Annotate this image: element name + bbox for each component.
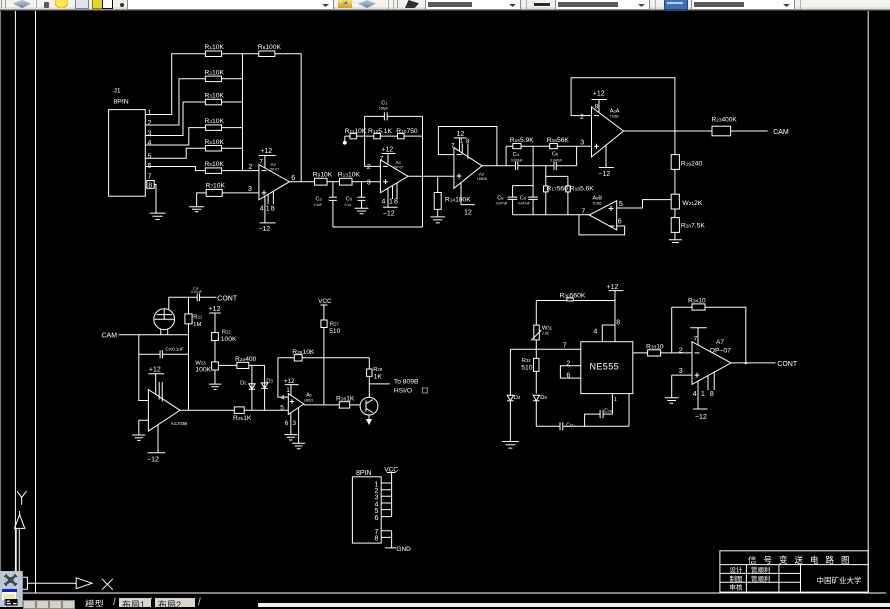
wire A7 plus input to ground (672, 375, 692, 398)
resistor R30 body (567, 298, 573, 301)
wire CAM input (119, 334, 189, 336)
svg-text:100pF: 100pF (379, 107, 388, 111)
wire A2 output (289, 181, 314, 183)
svg-text:1: 1 (701, 391, 705, 398)
resistor R10 body (398, 133, 405, 138)
UCS icon Y arrowhead (15, 511, 25, 528)
svg-text:CONT: CONT (777, 361, 798, 368)
svg-text:−12: −12 (598, 171, 610, 178)
wire R2 to bus (222, 78, 243, 80)
svg-text:4: 4 (693, 391, 697, 398)
resistor R9 body (315, 178, 328, 185)
ground below A1 plus input (132, 435, 145, 440)
svg-text:+12: +12 (593, 90, 605, 97)
toolbar end separator (800, 0, 801, 9)
svg-text:+12: +12 (381, 146, 393, 153)
wire stub to HSI/O (369, 383, 390, 385)
wire NE555 discharge pin (628, 394, 630, 427)
svg-text:6: 6 (375, 515, 379, 522)
svg-text:1: 1 (286, 387, 290, 394)
wire R13 to opamp A4 plus input (352, 181, 380, 183)
svg-text:GND: GND (396, 546, 411, 553)
resistor R23 body (712, 126, 731, 136)
svg-text:C4: C4 (513, 152, 520, 158)
wire R24 to diode node (249, 364, 265, 366)
wire bottom row with C11 (536, 425, 629, 427)
capacitor C20 wire (139, 353, 189, 355)
svg-text:+12: +12 (149, 366, 161, 373)
wire R6 to opamp A2 inverting input (222, 170, 259, 172)
wire A6A output (624, 130, 713, 132)
UCS icon X axis line (27, 582, 76, 584)
svg-text:R24400: R24400 (235, 356, 257, 363)
svg-text:−12: −12 (383, 210, 395, 217)
svg-text:R22: R22 (222, 329, 232, 335)
power +12 tee of A7 (690, 328, 707, 345)
wire pins 2 and 6 jog (560, 366, 580, 378)
op-amp A5 triangle (288, 394, 304, 415)
resistor R32 vertical with leads (535, 349, 537, 393)
svg-text:7: 7 (581, 209, 585, 216)
capacitor C1 plates (384, 112, 387, 120)
ground below J1 (150, 213, 166, 219)
branch wire to C8 (513, 185, 534, 187)
svg-text:4: 4 (148, 140, 152, 147)
drawing frame left inner border (35, 11, 37, 593)
svg-text:2: 2 (580, 114, 584, 121)
toolbar layer-previous icon (358, 0, 376, 8)
svg-text:R32: R32 (522, 358, 532, 364)
wire A6B pin6 feedback loop (579, 215, 625, 235)
svg-text:审核: 审核 (730, 583, 744, 592)
wire tube top to coupling cap (169, 297, 197, 309)
power -12 tee of A7 (693, 381, 708, 409)
svg-text:100K: 100K (195, 366, 211, 373)
diode D2 vertical wire (251, 365, 253, 410)
ground below R20 (669, 240, 682, 243)
op-amp A4 pin1 pin8 stubs (393, 183, 398, 199)
op-amp A6B mirrored triangle (589, 201, 617, 230)
connector J1 body (109, 110, 146, 197)
wire R20 to ground (674, 232, 676, 239)
svg-text:2: 2 (249, 164, 253, 171)
wire A7 output to CONT (731, 362, 776, 364)
wire J1 pin2 to R2 (145, 79, 205, 125)
resistor R34 body (692, 304, 705, 310)
wire NE555 pin5 with C10 (585, 394, 613, 427)
wire J1 pin4 to R4 (145, 128, 205, 145)
svg-text:6: 6 (285, 420, 289, 427)
svg-text:R1310K: R1310K (338, 171, 361, 178)
svg-text:8: 8 (616, 320, 620, 327)
resistor R24 body (237, 362, 249, 368)
wire R22 to W23 (214, 341, 216, 362)
resistor R21 vertical with leads (188, 297, 190, 410)
resistor R8 feedback body (259, 51, 275, 57)
svg-text:8PIN: 8PIN (114, 99, 129, 106)
svg-text:5: 5 (619, 201, 623, 208)
op-amp A2 plus mark (262, 190, 267, 195)
svg-text:7: 7 (148, 174, 152, 181)
svg-text:3: 3 (248, 186, 252, 193)
wire node down to C5 (361, 182, 363, 198)
UCS icon origin box (21, 577, 27, 589)
svg-text:设计: 设计 (730, 565, 744, 574)
svg-text:2.2K: 2.2K (542, 331, 550, 335)
resistor R4 body (205, 125, 221, 130)
wire J1 pin3 to R3 (145, 102, 205, 136)
vertical link right of T network to pin3 (577, 146, 592, 166)
capacitor C10 plates (600, 410, 603, 418)
op-amp A2 pin1 pin8 stubs (268, 191, 273, 204)
svg-text:5: 5 (148, 153, 152, 160)
svg-text:D2: D2 (240, 381, 247, 387)
toolbar linetype dropdown (555, 0, 650, 10)
op-amp A6A plus mark (594, 144, 599, 149)
toolbar layers icon (13, 0, 31, 8)
svg-text:R207.5K: R207.5K (681, 222, 705, 229)
layout1 tab (119, 598, 151, 607)
power -12 tee of A6A (599, 146, 614, 168)
svg-text:HSI/O: HSI/O (394, 388, 412, 395)
power -12 tee of A4 (383, 188, 398, 207)
svg-text:0.047uF: 0.047uF (518, 202, 530, 206)
wire J2 GND bus (385, 531, 396, 548)
resistor R17 vertical with leads (546, 166, 568, 215)
capacitor C19 plates (197, 294, 199, 302)
diode D4 symbol (507, 395, 513, 401)
power -12 tee of A2 (260, 196, 276, 223)
transistor K internals (366, 400, 373, 413)
title block row line 1 (720, 564, 868, 566)
svg-text:R1656K: R1656K (547, 137, 570, 144)
resistor R25 body (234, 407, 244, 414)
UCS icon Y label (17, 491, 27, 505)
wire A5 output (304, 404, 340, 406)
svg-text:C10: C10 (604, 408, 612, 414)
resistor R22 body vertical (212, 333, 219, 341)
svg-text:12: 12 (457, 131, 465, 138)
feedback bottom wire of A4 (333, 226, 423, 228)
node stub dot at left of resistor chain (344, 136, 346, 141)
svg-text:3: 3 (580, 140, 584, 147)
svg-text:R610K: R610K (205, 161, 225, 168)
wire A1 output (180, 409, 234, 411)
op-amp A6A minus mark (594, 115, 599, 117)
svg-text:R3410: R3410 (688, 298, 706, 305)
resistor R28 body on feedback wire (278, 357, 369, 359)
svg-text:510: 510 (521, 365, 532, 372)
resistor R5 body (205, 146, 221, 152)
wire J1 pin1 to R1 (145, 54, 205, 115)
svg-text:2: 2 (679, 348, 683, 355)
op-amp A3 minus mark (457, 154, 462, 156)
window left edge line (0, 11, 1, 596)
svg-text:3: 3 (148, 131, 152, 138)
svg-text:8: 8 (466, 139, 470, 145)
op-amp A7 minus mark (695, 352, 700, 354)
svg-text:R3310: R3310 (646, 344, 664, 351)
resistor R29 vertical with leads (368, 358, 370, 398)
svg-text:4: 4 (260, 206, 264, 213)
toolbar grip (1, 0, 2, 8)
junction dot at A7 output (745, 362, 748, 365)
svg-text:7: 7 (259, 159, 263, 166)
svg-text:7: 7 (380, 156, 384, 163)
svg-text:8: 8 (595, 104, 599, 111)
svg-text:R185.6K: R185.6K (570, 185, 594, 192)
svg-text:C200.1uF: C200.1uF (165, 347, 183, 352)
wire C19 to CONT terminal (200, 296, 217, 298)
drawing frame bottom border (15, 592, 886, 594)
svg-text:6: 6 (291, 175, 295, 182)
wire R7 to opamp A2 non-inverting input (222, 192, 259, 194)
wire plus input to ground (139, 420, 149, 435)
wire C5 to ground (361, 200, 363, 208)
svg-text:2: 2 (567, 360, 571, 367)
ground below D4 (502, 442, 519, 449)
layout tab nav buttons (23, 600, 36, 609)
UCS icon X arrowhead (76, 578, 92, 589)
potentiometer W21 body vertical (671, 194, 679, 209)
svg-text:7: 7 (694, 336, 698, 343)
svg-text:+12: +12 (284, 378, 295, 385)
title block column line 2 (778, 565, 780, 593)
feedback right wire of A4 (422, 116, 424, 227)
wire NE555 output row (633, 352, 692, 354)
svg-text:2: 2 (148, 120, 152, 127)
resistor R20 body vertical (671, 218, 679, 233)
toolbar separator (655, 0, 656, 9)
ground below W23 (209, 384, 221, 389)
svg-text:−12: −12 (147, 457, 159, 464)
wire CAM node down to minus input (139, 335, 149, 401)
wire D5 to bottom row (535, 401, 537, 427)
timer NE555 body (581, 342, 633, 394)
svg-text:1M: 1M (193, 322, 201, 328)
potentiometer W23 body vertical (212, 362, 219, 370)
wire bus through R8 to output node (243, 54, 302, 182)
toolbar pencil icon bottom (44, 2, 49, 8)
op-amp A7 triangle (692, 342, 731, 385)
svg-text:A7: A7 (716, 339, 724, 346)
svg-text:R251K: R251K (233, 415, 252, 422)
svg-text:TL082: TL082 (593, 201, 602, 205)
svg-text:R155.9K: R155.9K (510, 137, 534, 144)
wire A5 pin4 feedback (278, 358, 288, 397)
resistor R26 body (339, 402, 349, 408)
svg-text:R30560K: R30560K (560, 292, 586, 299)
capacitor C6 plates (554, 162, 556, 170)
svg-text:A5: A5 (306, 392, 311, 398)
tab slash separator (113, 597, 121, 607)
svg-text:J1: J1 (114, 88, 121, 95)
svg-text:4: 4 (594, 329, 598, 336)
op-amp A1 triangle (148, 390, 180, 432)
svg-text:0.01uF: 0.01uF (191, 290, 202, 294)
wire W23 to ground (214, 370, 216, 384)
resistor R13 body (340, 178, 353, 185)
svg-text:LM308: LM308 (477, 177, 487, 181)
capacitor C3 plates (329, 197, 337, 200)
svg-text:R261K: R261K (336, 395, 355, 402)
wire A3 output lower path (482, 165, 577, 167)
upper path wire with R15 R16 (506, 145, 576, 147)
svg-text:R125.1K: R125.1K (368, 128, 392, 135)
capacitor C20 plates (160, 350, 162, 358)
svg-text:6: 6 (618, 219, 622, 226)
wire W31 to pin7 node (535, 340, 537, 349)
resistor R15 body (513, 144, 521, 149)
wire R30 row (536, 300, 615, 302)
pullup VCC tee (321, 305, 328, 320)
toolbar color dropdown (425, 0, 521, 10)
title block row line 3 (720, 581, 801, 583)
svg-text:R27: R27 (330, 322, 340, 328)
svg-text:3: 3 (679, 368, 683, 375)
wire R19 to W21 (674, 169, 676, 194)
toolbar layer dropdown (127, 0, 334, 10)
layout2 tab (155, 598, 195, 607)
svg-text:C3: C3 (316, 196, 323, 202)
svg-text:R21: R21 (193, 315, 203, 321)
svg-text:3: 3 (292, 420, 296, 427)
svg-text:TL082: TL082 (610, 114, 619, 118)
svg-text:8PIN: 8PIN (356, 470, 372, 477)
wire J1 pin8 to ground (154, 185, 156, 214)
resistor R19 body vertical (671, 155, 679, 170)
transistor K emitter arrow (368, 415, 370, 420)
power -12 tee of A1 (148, 425, 166, 453)
resistor R12 body (374, 133, 381, 138)
svg-text:+12: +12 (260, 148, 272, 155)
svg-text:5: 5 (280, 404, 284, 411)
power +12 tee of A4 (382, 154, 396, 164)
svg-text:信号变送电路图: 信号变送电路图 (748, 555, 857, 565)
svg-text:R19240: R19240 (681, 160, 703, 167)
svg-text:0.047uF: 0.047uF (550, 158, 562, 162)
wire A4 output to A3 plus input (408, 175, 454, 177)
svg-text:1: 1 (389, 198, 393, 205)
op-amp A3 plus mark (457, 174, 462, 179)
svg-text:6: 6 (567, 373, 571, 380)
op-amp A7 pin1 pin8 stubs (708, 372, 714, 390)
op-amp A2 minus mark (262, 170, 267, 172)
svg-text:7: 7 (451, 143, 455, 150)
ground below A7 plus input (665, 398, 679, 403)
wire W21 to R20 (674, 209, 676, 218)
op-amp A6A triangle (592, 107, 624, 157)
svg-text:R310K: R310K (205, 93, 225, 100)
capacitor C11 plates (560, 422, 563, 430)
wire W23 wiper to R24 (218, 364, 237, 366)
camera tube V1 circle (154, 309, 175, 330)
svg-text:1: 1 (266, 206, 270, 213)
toolbar small glyph (120, 3, 124, 7)
mini toolbar close star icon (0, 571, 22, 607)
wire R4 to bus (222, 127, 243, 129)
svg-text:1: 1 (148, 110, 152, 117)
svg-text:7: 7 (563, 343, 567, 350)
vertical link left of T network (505, 146, 507, 166)
svg-text:W212K: W212K (682, 200, 702, 207)
capacitor C9 plates (528, 197, 538, 199)
wire J2 pins 7-8 stubs (381, 531, 391, 538)
svg-text:1: 1 (460, 139, 464, 145)
title block column line 1 (745, 565, 747, 593)
wire A3 feedback loop (438, 127, 497, 166)
svg-text:C11: C11 (566, 422, 574, 428)
vertical middle node with C9 (532, 146, 534, 215)
resistor R14 body vertical (437, 176, 439, 216)
op-amp A4 plus mark (383, 179, 388, 184)
wire node down to C3 (332, 182, 334, 198)
wire J1 pin5 to R5 (145, 148, 205, 158)
svg-text:+12: +12 (209, 306, 221, 313)
svg-text:R14100K: R14100K (445, 196, 471, 203)
feedback resistor chain wire (345, 135, 423, 137)
wire J1 pin6 to R6 (145, 167, 205, 171)
power +12 tee of R22 branch (209, 313, 221, 333)
wire pin7 row (510, 348, 580, 350)
resistor R27 body vertical (321, 320, 327, 328)
wire pins 4 and 8 to +12 (602, 325, 615, 342)
resistor R1 body (205, 51, 221, 57)
svg-text:D5: D5 (540, 395, 547, 401)
wire J2 pins 1-6 stubs (381, 483, 391, 517)
resistor R7 body (206, 189, 222, 196)
wire J2 VCC bus (391, 483, 393, 517)
drawing frame right border (867, 11, 869, 593)
diode D5 symbol (533, 395, 539, 401)
svg-text:12: 12 (464, 209, 472, 216)
transistor K circle (360, 397, 378, 415)
svg-text:管顺利: 管顺利 (751, 565, 771, 574)
feedback left wire of A4 to minus input (365, 116, 381, 166)
title block row line 2 (720, 572, 801, 574)
toolbar separator (36, 0, 37, 8)
svg-text:D4: D4 (514, 395, 521, 401)
wire R9 to R13 (327, 181, 340, 183)
toolbar bulb icon bottom (92, 0, 103, 9)
svg-text:R2810K: R2810K (292, 349, 315, 356)
wire output chain down (674, 131, 676, 155)
svg-text:R23400K: R23400K (712, 116, 738, 123)
diode D2 symbol (249, 384, 255, 390)
op-amp A5 ground pin3 (292, 408, 305, 449)
op-amp A4 minus mark (383, 165, 388, 167)
svg-text:VCC: VCC (384, 466, 398, 473)
resistor R3 body (205, 99, 221, 105)
op-amp A4 triangle (380, 160, 408, 193)
potentiometer W31 body vertical (534, 325, 540, 340)
power +12 tee of A1 (148, 374, 164, 395)
UCS icon Y axis shaft (16, 528, 19, 592)
svg-text:To 809B: To 809B (394, 378, 419, 385)
op-amp A5 ground pin6 (284, 413, 297, 440)
svg-text:R8100K: R8100K (258, 44, 282, 51)
wire R27 down to output node (323, 328, 325, 405)
svg-text:R410K: R410K (205, 118, 225, 125)
toolbar lineweight icon (664, 0, 688, 10)
toolbar sheet-arrow icon bottom (75, 0, 89, 9)
svg-text:0.1uF: 0.1uF (314, 203, 322, 207)
ground below R7 (189, 207, 204, 212)
power +12 tee of A6A (592, 100, 608, 113)
wire R26 to transistor K base (350, 404, 360, 406)
svg-text:R510K: R510K (205, 139, 225, 146)
op-amp A6B plus mark (609, 206, 614, 211)
